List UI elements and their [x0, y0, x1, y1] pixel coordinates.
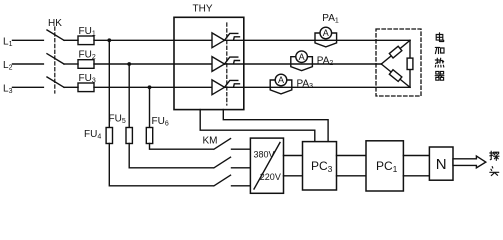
wire THY out line3: [244, 86, 410, 88]
fuse FU3: [78, 83, 94, 92]
heater resistor R right: [407, 58, 413, 69]
wire FU3 to THY: [94, 86, 212, 88]
contactor KM contact 1: [214, 139, 231, 150]
node L2 label: [3, 60, 13, 72]
switch HK label: [48, 18, 62, 29]
svg-text:THY: THY: [193, 3, 213, 14]
char 电: [436, 33, 444, 42]
gate lead A from THY to PC3: [200, 110, 315, 142]
fuse FU6: [146, 128, 152, 144]
fuse FU2: [78, 60, 94, 69]
switch HK linkage dashed: [54, 27, 56, 93]
box THY: [174, 17, 244, 109]
wire FU2 to THY: [94, 63, 212, 65]
contactor KM contact 2: [214, 157, 231, 168]
heater dashed enclosure: [376, 29, 421, 96]
fuse FU5: [126, 128, 132, 144]
ammeter PA2: [291, 51, 334, 71]
contactor KM contact 3: [214, 175, 231, 186]
wire L3 to FU3: [64, 86, 78, 88]
wire L2 in: [13, 63, 44, 65]
wire FU6 drop: [149, 87, 151, 127]
transformer T box: [250, 138, 283, 193]
wire L1 in: [13, 39, 44, 41]
wire FU5 drop: [128, 64, 130, 128]
wire FU4 to KM row3: [109, 144, 213, 186]
box N: [429, 147, 453, 180]
svg-text:N: N: [436, 156, 447, 173]
gate lead B from THY to PC3: [223, 110, 328, 142]
wire L1 to FU1: [64, 39, 78, 41]
char 头: [490, 167, 499, 176]
svg-text:KM: KM: [203, 136, 218, 147]
switch HK pole 2 blade: [47, 54, 64, 64]
fuse FU1: [78, 36, 94, 45]
label 探头: [490, 151, 499, 175]
char 加: [435, 47, 444, 53]
char 探: [490, 151, 499, 160]
box PC1: [366, 141, 403, 191]
label 电加热器: [435, 33, 444, 80]
ammeter PA3: [270, 74, 313, 94]
wire THY out line2: [244, 63, 381, 65]
wire PC1 to N upper: [403, 155, 429, 157]
thyristor dashed linkage: [226, 23, 228, 105]
thyristor V3: [212, 80, 243, 95]
thyristor V1: [212, 33, 243, 48]
wire FU4 drop: [108, 40, 110, 127]
wire PC3 to PC1 lower: [337, 175, 367, 177]
ammeter PA1: [315, 13, 339, 47]
heater delta right side: [409, 40, 411, 87]
svg-text:A: A: [278, 75, 284, 85]
char 热: [435, 58, 444, 67]
wire FU5 to KM row2: [129, 144, 213, 168]
heater resistor R upper: [389, 46, 401, 58]
char 器: [435, 71, 444, 80]
wire T to PC3 upper: [284, 155, 303, 157]
switch HK pole 3 blade: [47, 77, 64, 87]
box PC3: [303, 142, 337, 190]
heater delta lower-left side: [381, 64, 410, 87]
svg-text:A: A: [299, 52, 305, 62]
probe arrow: [453, 156, 486, 168]
heater delta upper-left side: [381, 40, 410, 64]
heater resistor R lower: [389, 70, 402, 82]
thyristor V2: [212, 57, 243, 72]
wire PC3 to PC1 upper: [337, 155, 367, 157]
transformer diagonal: [254, 143, 280, 190]
junction dot L1/FU4: [107, 38, 111, 42]
wire PC1 to N lower: [403, 175, 429, 177]
fuse FU4: [106, 128, 112, 144]
svg-text:220V: 220V: [260, 172, 281, 182]
svg-text:380V: 380V: [254, 149, 275, 159]
wire T to PC3 lower: [284, 175, 303, 177]
node L1 label: [3, 36, 13, 48]
svg-text:A: A: [323, 28, 329, 38]
wire L2 to FU2: [64, 63, 78, 65]
junction dot L2/FU5: [127, 62, 131, 66]
node L3 label: [3, 83, 13, 95]
contactor KM label: [203, 136, 218, 147]
wire L3 in: [13, 86, 44, 88]
wire THY out line1: [244, 39, 410, 41]
wire FU1 to THY: [94, 39, 212, 41]
switch HK pole 1 blade: [47, 30, 64, 40]
junction dot L3/FU6: [148, 85, 152, 89]
wire FU6 to KM row1: [150, 144, 214, 150]
